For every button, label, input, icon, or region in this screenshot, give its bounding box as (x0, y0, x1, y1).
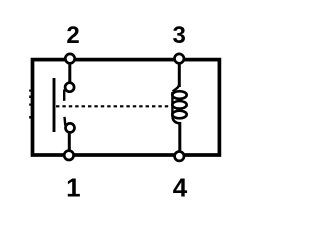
armature bar (53, 78, 56, 132)
mechanical link (dashed) (56, 105, 171, 107)
scan speck on left border (29, 90, 31, 92)
terminal pin 2 (65, 54, 74, 63)
coil L1 loop 1 (172, 91, 186, 99)
svg-text:3: 3 (173, 22, 186, 49)
switch lower contact tail (63, 117, 66, 126)
terminal pin 4 (175, 152, 184, 161)
wire: pin 2 stem to upper contact (68, 58, 71, 83)
svg-text:1: 1 (66, 172, 80, 202)
switch upper contact (65, 83, 74, 92)
wire: pin 3 stem to coil (178, 58, 181, 87)
wire: pin 1 stem from lower contact (68, 133, 71, 155)
scan speck on left border (29, 96, 31, 99)
coil L1 loop 3 (172, 111, 186, 119)
switch upper contact tail (63, 90, 65, 101)
svg-text:2: 2 (66, 22, 79, 49)
wire: pin 4 stem from coil (178, 122, 181, 156)
scan speck on left border (29, 116, 31, 119)
terminal pin 1 (64, 151, 73, 160)
coil L1 left spine (171, 92, 173, 117)
coil L1 loop 2 (172, 101, 186, 109)
coil L1 bottom hook (172, 117, 179, 123)
terminal pin 3 (175, 54, 184, 63)
coil L1 top hook (173, 84, 180, 92)
relay body outline (33, 60, 220, 155)
switch lower contact (66, 123, 75, 132)
svg-text:4: 4 (173, 172, 188, 202)
scan speck on left border (29, 104, 31, 106)
